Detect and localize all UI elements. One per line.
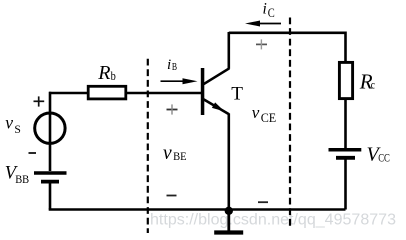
- svg-text:T: T: [231, 84, 243, 105]
- minus sign vBE: [167, 195, 177, 197]
- battery VBB long plate: [34, 171, 67, 174]
- battery VCC long plate: [329, 148, 362, 152]
- label iC: [263, 0, 275, 20]
- minus sign of source: [29, 152, 37, 154]
- label Rb: [97, 62, 115, 84]
- label Rc: [359, 70, 375, 94]
- svg-text:C: C: [268, 6, 275, 20]
- wire: right rail top (top rail to Rc): [344, 32, 347, 63]
- transistor emitter diagonal: [204, 99, 230, 114]
- plus sign vCE: [256, 39, 267, 49]
- wire: left rail down to battery (passes through source circle): [49, 92, 52, 171]
- resistor Rb: [88, 86, 126, 99]
- ground stem: [227, 211, 230, 231]
- plus sign vBE: [167, 104, 178, 114]
- label vS: [5, 112, 21, 135]
- label vBE: [163, 143, 187, 164]
- svg-text:CE: CE: [261, 111, 277, 125]
- wire: top rail: [229, 31, 346, 34]
- transistor emitter arrowhead: [212, 102, 225, 111]
- svg-text:B: B: [172, 62, 177, 73]
- svg-text:CC: CC: [378, 151, 390, 165]
- svg-text:R: R: [97, 62, 110, 84]
- label vCE: [252, 103, 277, 125]
- battery VBB short plate: [41, 180, 59, 184]
- ground bar: [214, 230, 243, 234]
- transistor T base bar: [201, 68, 205, 115]
- svg-text:i: i: [167, 57, 171, 73]
- transistor collector diagonal: [204, 68, 230, 84]
- wire: battery VCC to bottom rail: [344, 160, 347, 210]
- label VBB: [5, 163, 29, 185]
- junction node (emitter to ground): [225, 207, 233, 215]
- svg-text:BE: BE: [173, 149, 187, 163]
- dashed line right: [289, 18, 291, 230]
- svg-text:v: v: [252, 103, 260, 122]
- svg-text:i: i: [263, 0, 267, 17]
- wire: Rb to transistor base: [127, 92, 201, 95]
- battery VCC short plate: [336, 156, 355, 160]
- wire: Rc to battery VCC: [344, 99, 347, 149]
- wire: collector vertical to top rail: [228, 32, 231, 69]
- dashed line left: [147, 59, 149, 233]
- wire: bottom rail: [49, 208, 346, 211]
- svg-text:v: v: [163, 143, 172, 164]
- svg-text:b: b: [111, 68, 116, 83]
- label iB: [167, 57, 177, 73]
- label VCC: [367, 144, 390, 166]
- wire: main base wire left segment (source corner to Rb): [49, 92, 87, 95]
- minus sign vCE: [258, 201, 268, 203]
- svg-text:https://blog.csdn.net/qq_49578: https://blog.csdn.net/qq_49578773: [150, 212, 396, 229]
- arrow iB: [161, 78, 198, 84]
- arrow iC: [245, 21, 281, 27]
- svg-text:c: c: [371, 77, 375, 91]
- wire: battery to bottom rail: [49, 183, 52, 209]
- source vS circle: [35, 113, 65, 143]
- svg-text:S: S: [14, 122, 21, 136]
- svg-text:BB: BB: [15, 172, 29, 186]
- wire: emitter vertical down to bottom rail: [228, 114, 231, 210]
- resistor Rc: [339, 62, 352, 98]
- svg-text:v: v: [5, 112, 13, 132]
- plus sign of source: [34, 96, 45, 106]
